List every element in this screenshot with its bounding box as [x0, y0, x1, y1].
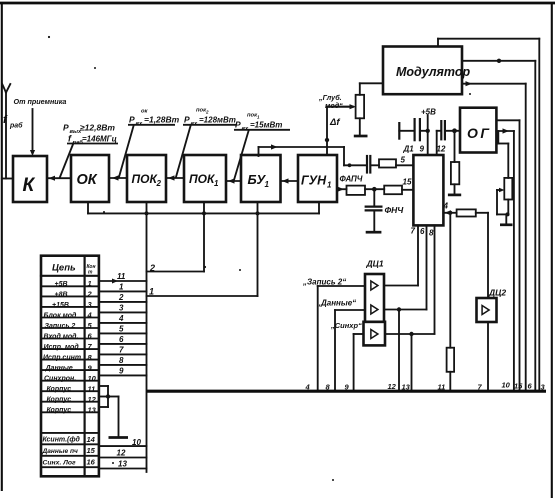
svg-text:Корпус: Корпус [47, 386, 72, 393]
wire pin 5 (net 4) [99, 322, 147, 324]
bottom bus line [147, 390, 547, 393]
wire R4a to R4b [365, 188, 384, 190]
svg-text:Синх. Лог: Синх. Лог [43, 460, 77, 467]
svg-text:Р: Р [235, 120, 241, 130]
svg-text:12: 12 [117, 449, 126, 458]
label P_вх^ПОК2 =128мВт with pointer [176, 108, 236, 178]
junction on buffer3 output [409, 332, 413, 336]
label f_раб with arrow into K [3, 109, 35, 156]
table row pin 10 Синхрон. [44, 374, 97, 383]
svg-text:15: 15 [87, 446, 96, 455]
wire R1 top to Modulator left [360, 83, 383, 95]
wire OK to K [47, 176, 71, 181]
wire Modulator top feed (net 3) [438, 39, 539, 390]
svg-text:4: 4 [443, 202, 449, 211]
svg-text:Модулятор: Модулятор [396, 65, 470, 79]
net label 6 [528, 382, 533, 391]
svg-text:ПОК: ПОК [132, 172, 159, 186]
ground at R1 [354, 135, 368, 138]
wire pin 1 (net 11) [99, 279, 147, 284]
net label 1 on pin 2 wire [119, 283, 124, 292]
net label 11 [438, 383, 446, 392]
table row pin 4 Блок мод [44, 311, 93, 320]
buffer DC1.3 [371, 330, 378, 339]
label P_вх^ОК =1,28Вт with pointer [119, 109, 180, 178]
svg-text:6: 6 [119, 335, 124, 344]
wire BU1 to POK1 [226, 178, 241, 183]
svg-text:Цепь: Цепь [52, 263, 76, 274]
wire tap to trimmer R6 top [498, 131, 508, 178]
junction on buffer2 output [397, 307, 401, 311]
svg-text:Р: Р [129, 115, 135, 125]
label Синхр [330, 321, 362, 330]
svg-text:≥12,8Вт: ≥12,8Вт [80, 123, 115, 133]
net label 9 [345, 383, 350, 392]
wire BU1 top to prescaler input [259, 144, 345, 156]
svg-text:Запись 2: Запись 2 [45, 323, 76, 330]
label wire 2 [149, 263, 155, 273]
pin label 15 [403, 178, 412, 187]
designator ДЦ1 [366, 259, 384, 269]
net label 3 on pin 4 wire [119, 304, 124, 313]
wire buffer2 output to pin 6 [385, 309, 427, 311]
wire LPF node down to C4 [373, 189, 375, 206]
ground at C4 [366, 231, 382, 234]
svg-text:4: 4 [87, 311, 93, 320]
svg-text:13: 13 [88, 405, 97, 414]
junction blob on pin5 wire [348, 163, 352, 167]
ground stem below R6 [505, 214, 507, 223]
svg-text:+5В: +5В [55, 281, 68, 288]
junction at LPF node [372, 187, 377, 192]
svg-text:т: т [88, 270, 93, 276]
svg-text:1: 1 [149, 287, 154, 297]
net label 15 [514, 382, 523, 391]
svg-text:+15В: +15В [52, 302, 69, 309]
svg-text:От приемника: От приемника [14, 97, 67, 106]
block GUN1 [298, 155, 337, 202]
svg-text:1: 1 [119, 283, 124, 292]
svg-text:6: 6 [420, 227, 425, 236]
table row pin 16 Синх.Лог [43, 458, 96, 467]
wire pin 4 (net 3) [99, 311, 147, 313]
svg-text:12: 12 [88, 395, 97, 404]
buffer DC2.1 [482, 306, 489, 315]
wire C4 to ground [373, 211, 375, 231]
junction at POK1 stub [202, 211, 206, 215]
wire D1 pin 4 with arrow [443, 210, 456, 215]
table row pin 13 Корпус [47, 405, 97, 414]
net label 2 on pin 3 wire [118, 293, 124, 302]
table row pin 12 Корпус [47, 395, 97, 404]
pin label 6 [420, 227, 425, 236]
wire R8 to bottom bus [449, 372, 451, 390]
block POK1 [184, 155, 226, 202]
svg-text:К: К [23, 175, 36, 196]
svg-text:Р: Р [184, 115, 190, 125]
svg-text:Испр.синт: Испр.синт [43, 355, 81, 362]
wire OG right lower with arrow (net 10) [496, 128, 514, 390]
table row pin 7 Испр. мод [44, 342, 93, 351]
ground at R5 [448, 194, 461, 197]
wire POK2 to OK [109, 175, 127, 180]
junction blob on net 6 [497, 59, 501, 63]
svg-text:1: 1 [265, 180, 270, 189]
trimmer resistor R6 [504, 178, 512, 200]
svg-text:+8В: +8В [55, 291, 68, 298]
svg-text:4: 4 [118, 314, 124, 323]
capacitor C4 LPF [366, 207, 382, 211]
wire 2 from POK1 branch to cable [147, 213, 205, 271]
wire net 11 down from pin 4 junction [449, 213, 451, 348]
wire Modulator right lower with arrow (unlabeled drop) [462, 81, 526, 390]
svg-text:ОГ: ОГ [467, 125, 491, 141]
pin label 8 [429, 229, 434, 238]
svg-text:Вход мод.: Вход мод. [44, 333, 79, 341]
svg-text:16: 16 [87, 458, 96, 467]
wiper arrow of R1 [327, 104, 356, 109]
wire OG right upper (net 15) [496, 120, 519, 390]
pin label 9 [420, 145, 425, 154]
table row pin 2 +8В [55, 290, 93, 299]
wire pin 16 (net 13) [99, 468, 147, 470]
wire pin 2 (net 1) [99, 290, 147, 292]
wire R6 bottom to ground [507, 200, 509, 215]
svg-text:9: 9 [119, 367, 124, 376]
svg-text:„Данные“: „Данные“ [316, 299, 356, 308]
wire R4b to D1 pin 15 [402, 189, 413, 191]
svg-text:Блок мод: Блок мод [44, 311, 78, 319]
label ФАПЧ [340, 175, 363, 184]
pin label 7 [411, 227, 416, 236]
svg-text:8: 8 [119, 356, 124, 365]
wire D1 pin 7 down to buffer 1 output [417, 225, 419, 285]
svg-text:Испр. мод: Испр. мод [44, 343, 80, 351]
svg-text:=128мВт: =128мВт [199, 116, 236, 125]
table row pin 9 Данные [45, 363, 93, 372]
pin label 12 [437, 145, 446, 154]
svg-text:11: 11 [88, 384, 96, 393]
net label 6 on pin 7 wire [119, 335, 124, 344]
svg-text:15: 15 [514, 382, 523, 391]
wire pin 8 (net 7) [99, 353, 147, 355]
svg-text:Ксинт.(фд: Ксинт.(фд [43, 436, 81, 444]
wire stub OK bottom [87, 202, 89, 213]
wire net 12 drop to bus [398, 310, 400, 391]
wire R7 to DC2 input [476, 213, 488, 298]
table row pin 8 Испр.синт [43, 353, 93, 362]
wire pin 7 (net 6) [99, 343, 147, 345]
svg-text:2: 2 [149, 263, 155, 273]
table row pin 11 Корпус [47, 384, 96, 393]
wire pin 10 (net 9) [99, 374, 147, 376]
svg-text:Корпус: Корпус [47, 397, 72, 404]
wire pin 9 (net 8) [99, 364, 147, 366]
label Глуб мод [318, 93, 343, 110]
label +5В [421, 108, 436, 117]
resistor R3 in pin5 line [379, 159, 396, 167]
svg-text:1: 1 [214, 179, 219, 188]
net label 13 [402, 383, 411, 392]
junction +5В node [426, 129, 430, 133]
wiper of R6 [497, 188, 508, 215]
net label 7 [478, 383, 483, 392]
wire Modulator right upper (net 6) [462, 61, 535, 390]
svg-text:Синхрон.: Синхрон. [44, 376, 76, 383]
wire capacitor to R3 [372, 164, 380, 166]
wire D1 pin 12 stub [436, 131, 438, 155]
net label 8 on pin 9 wire [119, 356, 124, 365]
junction at POK2 stub [145, 211, 149, 215]
svg-text:11: 11 [117, 272, 126, 281]
svg-text:1: 1 [88, 279, 92, 288]
svg-text:мод“: мод“ [325, 101, 343, 110]
table row pin 1 +5В [55, 279, 92, 288]
net label 3 [541, 383, 546, 392]
IC DC2 buffer [477, 298, 497, 322]
block Modulator [383, 47, 470, 95]
svg-text:3: 3 [119, 304, 124, 313]
pin label 5 [401, 156, 406, 165]
wire R5 to ground [454, 184, 456, 193]
table row pin 15 Данные пч [42, 446, 96, 455]
buffer DC1.2 [371, 305, 378, 314]
label Данные [316, 299, 356, 308]
connector X1 pin table frame [41, 256, 99, 477]
antenna W1 [2, 84, 10, 179]
junction Корпус [106, 394, 110, 398]
svg-text:ФАПЧ: ФАПЧ [340, 175, 363, 184]
capacitor C3 to OG input [437, 121, 460, 139]
wire stub BU1 bottom [257, 202, 259, 213]
svg-text:Данные пч: Данные пч [42, 448, 79, 455]
wire R1 bottom to ground [359, 118, 361, 135]
block OG crystal oscillator [460, 108, 496, 153]
block K (output stage) [13, 156, 47, 202]
junction at BU1 stub [256, 211, 260, 215]
svg-text:9: 9 [420, 145, 425, 154]
svg-text:2: 2 [87, 290, 93, 299]
resistor R5 to ground [451, 162, 459, 184]
wire wiper to GUN1 top [326, 107, 328, 155]
svg-text:5: 5 [401, 156, 406, 165]
net label 12 on pin 15 wire [117, 449, 126, 458]
wire D1 pin 6 down to buffer 2 output [426, 225, 428, 309]
svg-text:ГУН: ГУН [301, 174, 327, 188]
wire Запись 2 input (net 4) [318, 286, 365, 390]
wire node down to R5 [454, 131, 456, 162]
label ФНЧ [385, 205, 405, 215]
wire buffer3 output to pin 8 [385, 333, 435, 335]
svg-text:14: 14 [87, 435, 96, 444]
svg-text:Р: Р [63, 123, 69, 133]
svg-text:12: 12 [437, 145, 446, 154]
table row pin 3 +15В [52, 300, 93, 309]
label P_вых ≥12,8Вт / f_раб=146МГц with pointer [60, 123, 118, 178]
svg-text:ДЦ2: ДЦ2 [488, 288, 506, 298]
label P_вх^ПОК1 =15мВт with pointer [234, 113, 290, 181]
net label 12 [388, 382, 397, 391]
svg-text:10: 10 [502, 381, 511, 390]
net label 10 at connector ground [132, 438, 141, 447]
power bus under blocks [88, 212, 319, 214]
wire D1 pin 8 down to buffer 3 output [434, 225, 436, 333]
svg-text:„Синхр“: „Синхр“ [330, 321, 362, 330]
table row pin 6 Вход мод. [44, 332, 93, 341]
svg-text:=1,28Вт: =1,28Вт [144, 115, 180, 125]
wire stub GUN1 bottom [318, 202, 320, 213]
junction at OG input node [452, 128, 457, 133]
block POK2 [127, 155, 166, 202]
svg-text:ФНЧ: ФНЧ [385, 205, 405, 215]
net label 4 [305, 383, 311, 392]
wire stub POK1 bottom [203, 202, 205, 213]
wire pins 11-13 Корпус common [99, 386, 108, 407]
net label 13 on pin 16 wire [118, 460, 127, 469]
svg-text:Д1: Д1 [403, 145, 415, 154]
wire Данные input (net 8) [335, 310, 365, 390]
wire antenna to K [2, 178, 13, 180]
resistor R8 in net 11 [447, 348, 455, 372]
capacitor C1 coupling to pin 5 [367, 156, 370, 173]
svg-text:ДЦ1: ДЦ1 [366, 259, 384, 269]
svg-text:12: 12 [388, 382, 397, 391]
svg-text:7: 7 [119, 346, 124, 355]
cable bundle vertical from bus to connector [146, 213, 148, 472]
wire pin 14 [99, 445, 147, 447]
wire pin 3 (net 2) [99, 301, 147, 303]
wire buffer1 output to pin 7 [384, 285, 418, 287]
resistor R4a PLL [347, 186, 366, 195]
svg-text:1: 1 [327, 181, 332, 190]
svg-text:ОК: ОК [77, 172, 98, 188]
label От приемника [14, 97, 67, 106]
svg-text:7: 7 [411, 227, 416, 236]
svg-text:13: 13 [118, 460, 127, 469]
net label 11 on pin 1 wire [117, 272, 126, 281]
net label 7 on pin 8 wire [119, 346, 124, 355]
wire corner down to coupling capacitor [344, 147, 366, 165]
net label 5 on pin 6 wire [119, 325, 124, 334]
svg-text:Корпус: Корпус [47, 407, 72, 414]
junction on pin 4 net [448, 211, 452, 215]
label Запись 2 [302, 278, 346, 287]
svg-text:2: 2 [156, 179, 162, 188]
wire +5В down to D1 pin 9 [427, 116, 429, 156]
pin label 4 [443, 202, 449, 211]
junction at R6 bottom [506, 212, 510, 216]
svg-text:раб: раб [9, 122, 23, 130]
table row pin 5 Запись 2 [45, 321, 93, 330]
ground at connector (net 10) [109, 436, 129, 439]
resistor R4b PLL [384, 186, 402, 195]
label wire 1 [149, 287, 154, 297]
svg-text:2: 2 [118, 293, 124, 302]
wire 1 from BU1 branch to cable [147, 213, 258, 296]
capacitor C2 on +5В rail [399, 119, 427, 140]
wire stub POK2 bottom [146, 202, 148, 213]
svg-text:ПОК: ПОК [189, 172, 216, 186]
wire Синхр input (net 9) [354, 334, 364, 390]
wire R3 to D1 pin 5 [396, 164, 413, 166]
svg-text:15: 15 [403, 178, 412, 187]
svg-text:=146МГц: =146МГц [82, 135, 117, 144]
wire pin 6 (net 5) [99, 332, 147, 334]
net label 10 [502, 381, 511, 390]
wire DC2 output to bus (net 7) [487, 322, 489, 390]
table row pin 14 Ксинт.фд [43, 435, 96, 444]
wire net 13 drop to bus [411, 334, 413, 390]
svg-text:8: 8 [429, 229, 434, 238]
svg-text:=15мВт: =15мВт [250, 121, 282, 130]
wire POK1 to POK2 [166, 175, 184, 180]
net label 4 on pin 5 wire [118, 314, 124, 323]
resistor R7 in pin 4 line [457, 209, 476, 216]
svg-text:5: 5 [119, 325, 124, 334]
designator Д1 [403, 145, 415, 154]
IC DC1 buffer block [364, 274, 386, 345]
wire Корпус to ground [108, 397, 119, 437]
buffer DC1.1 [371, 281, 378, 290]
label Δf [329, 117, 340, 128]
net label 8 [326, 383, 331, 392]
svg-text:2: 2 [205, 110, 209, 115]
svg-text:Данные: Данные [45, 365, 73, 372]
wire pin 15 (net 12) [99, 457, 147, 459]
designator ДЦ2 [488, 288, 506, 298]
potentiometer R1 Глуб мод [356, 95, 365, 119]
block OK [71, 155, 109, 202]
table header Цепь / Конт [52, 263, 95, 276]
wire GUN1 right to R4a with arrow [337, 187, 347, 192]
net label 9 on pin 10 wire [119, 367, 124, 376]
ground at R6 [500, 223, 513, 226]
junction on wiper line [325, 138, 329, 142]
svg-text:Δf: Δf [329, 117, 340, 128]
IC D1 synthesizer [413, 155, 443, 225]
block BU1 [241, 155, 281, 202]
svg-text:10: 10 [88, 374, 97, 383]
wire GUN1 to BU1 [281, 178, 299, 183]
